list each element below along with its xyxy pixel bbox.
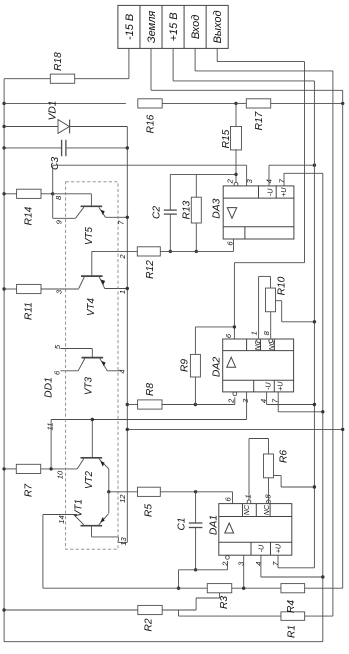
- node dot left rail / R2 line: [2, 608, 5, 611]
- node dot VT1-VT2 emitters: [107, 490, 110, 493]
- circle DA1 pin 8: [267, 500, 271, 504]
- pin label 8 of DD1: [54, 195, 63, 200]
- left -15V rail (vertical): [3, 79, 5, 642]
- pin label 3 DA2: [241, 398, 250, 403]
- wire R15 to DA3 pin2: [235, 149, 237, 182]
- svg-text:R9: R9: [180, 359, 191, 372]
- wire DA1 pin2 stub: [226, 561, 228, 570]
- resistor R17: [246, 99, 270, 131]
- wire R3 to DA1 pin3 node: [232, 587, 281, 589]
- svg-text:2: 2: [220, 561, 229, 567]
- connector X1 terminal block (-15 В, Земля, +15 В, Вход, Выход): [118, 5, 228, 48]
- pin label 7 DA2: [271, 398, 280, 403]
- wire VT3 emitter pin 4 stub: [107, 370, 120, 372]
- node dot VT5 emitter / rail: [126, 216, 129, 219]
- node dot R17 / ground rail: [341, 102, 344, 105]
- node dot R3 line / pin2 drop: [177, 587, 180, 590]
- svg-text:C2: C2: [152, 206, 163, 219]
- svg-text:2: 2: [227, 398, 236, 404]
- svg-text:-U: -U: [264, 382, 273, 390]
- output wire horizontal jog: [234, 262, 304, 264]
- wire C3 to emitter rail: [66, 147, 127, 149]
- pin 6 stub DA3 and label: [226, 239, 235, 251]
- transistor VT1: [73, 499, 108, 526]
- wire output stub down from connector: [216, 48, 218, 61]
- pin label 5 of DD1: [53, 344, 62, 349]
- svg-text:R17: R17: [254, 111, 265, 130]
- wire jog down to R1 line: [178, 610, 180, 616]
- svg-text:R1: R1: [287, 625, 298, 638]
- svg-text:DD1: DD1: [44, 377, 55, 398]
- svg-text:R5: R5: [144, 504, 155, 517]
- resistor R10: [266, 276, 288, 311]
- wire R6 bottom to DA1 pin 8: [268, 478, 270, 504]
- resistor R15: [221, 126, 241, 150]
- wire R3 line left segment: [43, 587, 207, 589]
- wire node A up to pin3 feed line: [52, 165, 54, 194]
- pin label 2 of DD1: [118, 254, 127, 260]
- wire VT4 emitter to rail (pin 1): [105, 288, 128, 290]
- svg-text:4: 4: [117, 369, 126, 373]
- node dot VT2 base / pin11 line: [91, 418, 94, 421]
- svg-text:10: 10: [55, 470, 64, 479]
- pin label 8 DA2: [262, 330, 271, 335]
- DA1 pin 3 stub to R3 line: [243, 555, 245, 588]
- circle DA2 pin 1: [257, 339, 261, 343]
- svg-text:R12: R12: [145, 260, 156, 279]
- svg-text:+15 В: +15 В: [168, 12, 180, 41]
- wire ground net to right rail: [151, 89, 343, 91]
- svg-text:+U: +U: [279, 187, 288, 197]
- R3 wiper wire to R2 line: [196, 593, 219, 610]
- wire to R10 top: [270, 276, 272, 288]
- emitter rail (vertical, DD1 common): [126, 127, 128, 543]
- node dot emitter rail / ground link: [126, 428, 129, 431]
- inversion circle DA3 pin 2: [234, 182, 238, 186]
- pin label 1 DA2: [249, 331, 258, 335]
- pin label 2 DA3: [226, 178, 235, 184]
- wire R13 bottom to R12 line: [195, 223, 197, 251]
- svg-text:Земля: Земля: [146, 11, 158, 43]
- wire R15 top: [235, 103, 237, 127]
- pin label 2 DA1: [220, 561, 229, 567]
- node dot left rail / C3 line: [2, 146, 5, 149]
- node dot C3 / emitter rail: [126, 146, 129, 149]
- DA1 pin 1 riser: [249, 439, 269, 504]
- wire VT5 emitter to emitter rail (pin 7): [105, 216, 127, 218]
- wire VT4 base up (pin 2) to R12: [92, 251, 138, 276]
- DA2 pin 1 riser: [259, 276, 271, 339]
- resistor R8: [138, 383, 162, 409]
- resistor R3: [207, 584, 232, 609]
- pin label 11 of DD1: [46, 423, 55, 431]
- wire C2-R13 top line: [170, 173, 236, 175]
- node dot DA2 -U / +15V rail: [313, 403, 316, 406]
- transistor VT3: [78, 358, 107, 395]
- wire left rail to R11: [4, 288, 16, 290]
- node dot DA3 -U / +15V rail: [313, 164, 316, 167]
- wire VT3 collector pin 6 stub: [60, 370, 78, 372]
- pin label 7 DA3: [278, 178, 287, 183]
- resistor R13: [182, 197, 202, 223]
- svg-text:DA3: DA3: [212, 198, 223, 218]
- wire VT1 base jog to emitter rail (pin 13): [92, 526, 128, 543]
- wire left rail to R7: [4, 468, 17, 470]
- wire pin11 line down to R7 node: [50, 420, 52, 469]
- IC label DD1: [44, 377, 55, 398]
- wire pin2 line drop to R3 line: [178, 570, 180, 588]
- inversion circle DA1 pin 2: [226, 556, 230, 560]
- node dot R10 wiper / +15V rail: [313, 320, 316, 323]
- transistor VT4: [79, 276, 105, 316]
- +15V rail (vertical): [313, 81, 315, 568]
- wire -15V to R18: [75, 78, 129, 80]
- resistor R4: [281, 584, 305, 613]
- op-amp DA2: [212, 339, 294, 392]
- node dot C1 top: [194, 490, 197, 493]
- pin label 4 DA3: [265, 179, 274, 183]
- svg-text:-U: -U: [256, 544, 265, 552]
- dashed outline DD1: [66, 182, 118, 549]
- wire C1 bottom to pin2 line: [195, 528, 197, 570]
- right -15V distribution rail (vertical): [322, 173, 324, 641]
- node dot DA1 -U / right rail: [321, 575, 324, 578]
- svg-text:4: 4: [254, 562, 263, 566]
- resistor R11: [17, 284, 41, 320]
- node dot R9 / output wire: [233, 325, 236, 328]
- pin label 3 DA3: [245, 178, 254, 183]
- capacitor C1: [177, 517, 203, 530]
- DA1 pin 7 (+U) wire from +15V rail: [278, 555, 314, 568]
- node A dot (R14/C3/VT5): [51, 192, 54, 195]
- svg-text:VT3: VT3: [84, 376, 95, 395]
- DA1 pin 4 (-U) wire to right rail: [261, 555, 323, 577]
- wire node A down to VT5 collector (pin 9): [53, 194, 76, 219]
- wire left rail to R2: [4, 609, 138, 611]
- svg-text:R13: R13: [182, 200, 193, 219]
- wire R16 to R15 node: [162, 102, 236, 104]
- wire R11 to VT4 collector (pin 3): [41, 288, 79, 290]
- node dot R13 / R12 line: [195, 250, 198, 253]
- output wire down to DA2 pin 6: [233, 263, 235, 339]
- wire left rail to R14: [4, 193, 16, 195]
- resistor R16: [138, 99, 162, 134]
- wire R9 vertical bottom: [194, 377, 196, 405]
- resistor R7: [16, 464, 40, 497]
- svg-text:NC: NC: [244, 504, 251, 515]
- svg-text:12: 12: [118, 494, 127, 503]
- svg-text:2: 2: [118, 254, 127, 260]
- wire left rail to VD1 anode: [4, 126, 58, 128]
- pin label 7 of DD1: [116, 220, 125, 225]
- node dot R6 wiper / +15V rail: [313, 485, 316, 488]
- wire R4 to ground rail: [305, 587, 343, 589]
- node dot C1 bottom: [194, 568, 197, 571]
- svg-text:C1: C1: [177, 517, 188, 530]
- DA3 pin 4 (-U) wire to +15V rail: [269, 165, 314, 186]
- node dot ground link / ground rail: [341, 428, 344, 431]
- pin label 1 of DD1: [118, 290, 127, 294]
- wire R17 to ground rail: [271, 102, 343, 104]
- svg-text:R7: R7: [24, 484, 35, 497]
- svg-text:R15: R15: [221, 129, 232, 148]
- svg-text:14: 14: [57, 515, 66, 523]
- bottom -15V return wire: [4, 641, 323, 643]
- node dot DA2 +U / right rail: [321, 410, 324, 413]
- wire input net to right rail: [195, 70, 333, 72]
- wire R2 to jog: [162, 609, 196, 611]
- pin label 12 of DD1: [118, 494, 127, 503]
- wire left rail to C3: [4, 147, 62, 149]
- wire -15V stub down from connector: [128, 48, 130, 78]
- svg-text:R10: R10: [276, 276, 287, 295]
- wire R15 node to R17: [236, 102, 246, 104]
- pin label 1 DA1: [244, 494, 253, 498]
- resistor R9: [180, 354, 201, 377]
- input rail (vertical): [332, 71, 334, 616]
- pin label 8 DA1: [263, 494, 272, 499]
- wire R18 to left rail corner: [4, 78, 50, 80]
- pin label 4 of DD1: [117, 369, 126, 373]
- capacitor C2: [152, 206, 177, 219]
- svg-text:C3: C3: [50, 157, 61, 170]
- wire output net to right rail: [217, 61, 304, 63]
- svg-text:R11: R11: [24, 302, 35, 320]
- wire R5 to C1 node: [160, 491, 195, 493]
- wire emitters node to R5: [109, 491, 138, 493]
- wire +15V net to right rail: [173, 80, 314, 82]
- wire R9 top to output node: [195, 327, 234, 355]
- pin label 9 of DD1: [54, 219, 63, 224]
- wire VT2 emitter down to common node: [108, 469, 110, 492]
- wire pin 14 down to R3 line: [42, 515, 44, 589]
- wire R10 bottom to DA2 pin 8: [270, 312, 272, 339]
- circle DA2 pin 8: [269, 339, 273, 343]
- node dot left rail / VD1 line: [2, 125, 5, 128]
- pin 3 stub DA3: [246, 165, 248, 186]
- wire C2 bottom to R12 line: [169, 214, 171, 251]
- wire R1 line left: [179, 615, 282, 617]
- wire VT1 emitter up to common node: [108, 492, 110, 513]
- pin label 4 DA1: [254, 562, 263, 566]
- node dot R15 / C2 R13 line: [234, 173, 237, 176]
- pin label 2 DA2: [227, 398, 236, 404]
- svg-text:R8: R8: [145, 383, 156, 396]
- svg-text:+U: +U: [274, 543, 283, 553]
- wire R12 to DA3 pin 6: [160, 250, 233, 252]
- DA2 pin 4 (-U) wire to +15V rail: [267, 392, 315, 405]
- svg-text:1: 1: [249, 331, 258, 335]
- pin label 6 DA2: [224, 333, 233, 338]
- output rail (vertical): [304, 62, 306, 263]
- op-amp DA1: [209, 504, 292, 556]
- pin label 10 of DD1: [55, 470, 64, 479]
- svg-text:1: 1: [118, 290, 127, 294]
- svg-text:VT2: VT2: [84, 470, 95, 489]
- svg-text:+U: +U: [276, 381, 285, 391]
- resistor R6: [264, 450, 290, 478]
- node dot R9 bottom: [194, 403, 197, 406]
- wire R9 node to DA2 pin 2: [195, 397, 234, 404]
- wire VD1 cathode to emitter rail top: [70, 126, 128, 128]
- svg-text:13: 13: [119, 537, 128, 546]
- svg-text:NC: NC: [264, 504, 271, 515]
- resistor R12: [137, 247, 160, 279]
- wire R14 to node A: [41, 193, 53, 195]
- DA3 pin 7 (+U) wire to -15V right rail: [284, 173, 323, 186]
- DA2 pin 7 (+U) wire to -15V right rail: [278, 392, 323, 412]
- node dot pin10/pin11 junction: [49, 467, 52, 470]
- pin label 13 of DD1: [119, 537, 128, 546]
- resistor R1: [281, 612, 305, 638]
- node dot DA1 pin3 / R3 line: [242, 587, 245, 590]
- resistor R2: [138, 605, 162, 631]
- pin label 3 of DD1: [55, 289, 64, 294]
- pin label 6 of DD1: [53, 370, 62, 375]
- wire ground stub down from connector: [150, 48, 152, 90]
- svg-text:R6: R6: [279, 450, 290, 463]
- svg-text:Выход: Выход: [212, 10, 224, 43]
- circle DA1 pin 1: [247, 500, 251, 504]
- pin label 6 DA1: [224, 497, 233, 502]
- capacitor C3: [50, 140, 66, 170]
- resistor R5: [138, 487, 161, 517]
- svg-text:R3: R3: [219, 596, 230, 609]
- node dot left rail / R14 line: [2, 192, 5, 195]
- DA2 pin 3 wire from DD1 pin 11 line: [51, 392, 247, 420]
- wire R7 to VT2 collector (pin 10): [41, 468, 77, 470]
- wire C1 top drop: [195, 492, 197, 523]
- svg-text:R4: R4: [286, 600, 297, 613]
- R10 wiper wire to +15V rail: [275, 301, 314, 322]
- pin label 4 DA2: [259, 399, 268, 403]
- svg-text:R2: R2: [144, 618, 155, 631]
- wire node A feed line to DA3 pin 3: [53, 164, 247, 166]
- svg-text:DA1: DA1: [209, 515, 220, 535]
- node dot left rail / R11 line: [2, 287, 5, 290]
- svg-text:R14: R14: [24, 206, 35, 225]
- wire VT2 base up to pin 11 line: [91, 420, 93, 458]
- R6 wiper wire to +15V rail: [274, 476, 315, 488]
- svg-text:VD1: VD1: [48, 101, 59, 121]
- wire node A to VT5 base (pin 8): [53, 194, 92, 207]
- wire R1 to input rail: [305, 615, 333, 617]
- ground link wire emitter-rail to ground rail: [127, 428, 342, 430]
- resistor R14: [17, 189, 41, 225]
- wire C1 node to DA1 pin 6: [196, 492, 233, 504]
- diode VD1: [48, 101, 70, 134]
- svg-text:-15 В: -15 В: [124, 14, 136, 40]
- op-amp DA3: [212, 186, 294, 239]
- wire R8 to R9 node: [162, 404, 195, 406]
- inversion circle DA2 pin 2: [233, 392, 237, 396]
- svg-text:1: 1: [244, 494, 253, 498]
- svg-text:-U: -U: [266, 188, 275, 196]
- node dot R15 top: [234, 102, 237, 105]
- svg-text:DA2: DA2: [212, 357, 223, 377]
- node dot rail / R8: [126, 403, 129, 406]
- node dot left rail / R7 line: [2, 467, 5, 470]
- svg-text:R16: R16: [146, 114, 157, 133]
- wire VT1 collector pin 14: [43, 514, 77, 516]
- ground rail (vertical): [342, 90, 344, 588]
- svg-text:2: 2: [226, 178, 235, 184]
- pin 5 stub and wire to VT3 base: [60, 349, 92, 358]
- svg-text:VT4: VT4: [86, 297, 97, 316]
- transistor VT5: [75, 206, 105, 245]
- pin label 7 DA1: [271, 561, 280, 566]
- svg-text:Вход: Вход: [190, 15, 202, 40]
- svg-text:R18: R18: [53, 52, 64, 71]
- wire left rail to R16: [4, 102, 126, 104]
- wire C2 top drop: [169, 174, 171, 210]
- transistor VT2: [77, 458, 109, 489]
- wire to R6 top: [268, 439, 270, 455]
- wire rail to R8: [127, 404, 137, 406]
- svg-text:11: 11: [46, 423, 55, 431]
- pin label 3 DA1: [237, 561, 246, 566]
- wire +15V stub down from connector: [172, 48, 174, 81]
- node dot left rail / R16 line: [2, 102, 5, 105]
- node dot VT4 emitter / rail: [126, 287, 129, 290]
- pin label 14 of DD1: [57, 515, 66, 523]
- resistor R18: [50, 52, 74, 83]
- svg-text:VT5: VT5: [84, 226, 95, 245]
- node dot C2 / R12 line: [169, 250, 172, 253]
- wire R13 top drop: [195, 174, 197, 197]
- wire input stub down from connector: [194, 48, 196, 71]
- wire pin2 line: [179, 569, 228, 571]
